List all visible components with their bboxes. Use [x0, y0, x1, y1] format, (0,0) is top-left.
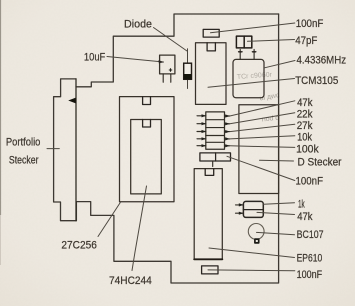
pointer: 74HC244 label — [132, 186, 147, 271]
svg-text:100nF: 100nF — [297, 269, 323, 281]
capacitor C4 100nF bottom body — [202, 266, 218, 274]
svg-text:1k: 1k — [298, 199, 305, 211]
svg-text:22k: 22k — [297, 109, 313, 121]
IC U3 notch — [143, 120, 151, 128]
svg-text:10k: 10k — [297, 131, 312, 143]
svg-text:EP610: EP610 — [297, 253, 323, 265]
resistor network RN1 dividers — [206, 120, 225, 143]
svg-text:D Stecker: D Stecker — [298, 157, 342, 169]
diode D1 body — [184, 63, 192, 79]
capacitor C2 100nF top body — [203, 29, 219, 37]
IC U2 27C256 socket body — [120, 97, 175, 202]
wire: board outline right edge — [76, 14, 278, 283]
pointer: Portfolio Stecker label — [47, 148, 59, 150]
ghost bleed-through marks — [237, 71, 281, 124]
arrowhead on connector pin 1 — [68, 98, 76, 104]
IC U4 heavy bottom edge — [194, 258, 222, 260]
svg-text:Diode: Diode — [124, 19, 152, 31]
pointer: Diode label — [154, 28, 188, 52]
connector J1 Portfolio Stecker edge strip — [54, 79, 77, 221]
IC U4 notch — [205, 169, 214, 176]
crystal X1 4.4336MHz body — [233, 59, 264, 97]
IC U2 notch — [143, 97, 151, 105]
arrowheads: RN1 right leads — [225, 114, 230, 117]
wire: W1 lead down — [212, 161, 214, 167]
jumper W1 low box — [200, 153, 231, 161]
pointer: 10k array label — [230, 136, 295, 139]
pointer: 100k array label — [230, 146, 295, 148]
wire: C1 leads — [163, 74, 171, 82]
pointer: TCM3105 label — [208, 79, 295, 88]
resistor network RN1 body — [206, 112, 225, 149]
capacitor C1 polarity plus — [169, 68, 172, 71]
IC U3 74HC244 body — [131, 120, 162, 194]
pointer: 47pF label — [248, 40, 295, 42]
wire: R6 R7 left leads — [236, 205, 244, 213]
svg-text:Portfolio: Portfolio — [6, 137, 41, 149]
svg-text:100k: 100k — [296, 143, 319, 155]
pointer: 100nF bottom label — [208, 269, 295, 272]
transistor Q1 BC107 body — [248, 224, 264, 240]
capacitor C3 47pF body — [236, 36, 251, 48]
arrowhead: 10uF pointer — [159, 60, 165, 63]
wire: RN1 left leads — [197, 116, 206, 146]
svg-text:47pF: 47pF — [295, 35, 317, 47]
pointer: 22k array label — [230, 113, 295, 124]
scan edge artifact left — [0, 0, 1, 215]
capacitor C3 divider — [243, 36, 245, 48]
svg-text:74HC244: 74HC244 — [109, 275, 152, 287]
wire: connector right edge — [75, 79, 77, 221]
arrowheads: R6 R7 leads — [239, 203, 244, 206]
pointer: 10uF label — [107, 57, 164, 63]
pointer: BC107 label — [257, 232, 295, 234]
pointer: 47k label — [257, 212, 295, 214]
svg-text:47k: 47k — [297, 97, 313, 109]
pointer: 1k label — [264, 203, 295, 204]
svg-text:TCM3105: TCM3105 — [295, 75, 338, 87]
IC U4 EP610 body — [194, 169, 222, 260]
connector J2 D-Stecker body — [239, 105, 279, 194]
svg-text:100nF: 100nF — [296, 18, 324, 30]
svg-text:4.4336MHz: 4.4336MHz — [297, 54, 347, 66]
svg-text:10uF: 10uF — [84, 51, 106, 63]
jumper W1 divider — [215, 153, 217, 161]
svg-text:27k: 27k — [297, 120, 313, 132]
pointer: 27C256 label — [98, 203, 120, 237]
pointer: 47k array label — [230, 101, 295, 116]
pointer: 100nF middle label — [227, 156, 295, 180]
resistor pair divider — [243, 209, 263, 211]
svg-text:Stecker: Stecker — [9, 154, 39, 166]
diode D1 leads — [187, 49, 189, 89]
arrowheads: RN1 left leads — [159, 60, 244, 215]
wire: crystal pins — [240, 50, 254, 60]
pointer: 100nF top label — [211, 23, 295, 33]
capacitor C1 10uF body — [160, 55, 175, 74]
pointer: D Stecker label — [260, 159, 294, 162]
wire: board outline main — [76, 14, 279, 87]
svg-text:100nF: 100nF — [296, 176, 324, 188]
pointer: 27k array label — [230, 124, 295, 131]
pointer: EP610 label — [209, 248, 295, 258]
transistor Q1 pad — [255, 239, 259, 243]
IC U1 notch — [207, 43, 215, 51]
svg-text:47k: 47k — [297, 211, 313, 223]
svg-text:BC107: BC107 — [297, 229, 324, 241]
pointer: 4.4336MHz label — [265, 61, 296, 68]
resistor pair R6 R7 1k 47k body — [243, 201, 263, 217]
svg-text:27C256: 27C256 — [61, 239, 97, 251]
wire: RN1 right leads — [225, 116, 230, 146]
IC U1 TCM3105 body — [196, 43, 227, 105]
